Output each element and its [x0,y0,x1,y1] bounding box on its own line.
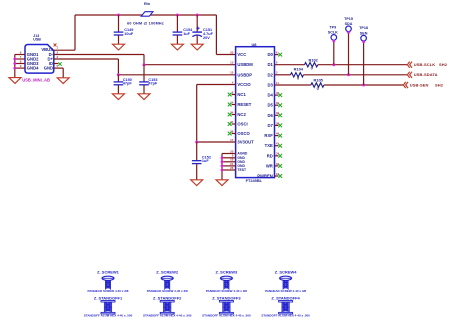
svg-text:USB_MINI_AB: USB_MINI_AB [22,77,50,82]
svg-text:TXE: TXE [265,143,273,148]
svg-text:SDA: SDA [345,22,353,26]
svg-text:0: 0 [297,76,299,81]
svg-text:D7: D7 [267,123,273,128]
svg-text:60 OHM @ 100MHz: 60 OHM @ 100MHz [127,22,164,26]
svg-text:3V3OUT: 3V3OUT [237,140,254,145]
svg-text:D3: D3 [267,83,273,88]
svg-text:PANHEAD SCREW 4-40 x 3/8: PANHEAD SCREW 4-40 x 3/8 [88,289,129,293]
svg-text:PANHEAD SCREW 4-40 x 3/8: PANHEAD SCREW 4-40 x 3/8 [265,289,306,293]
svg-text:TP9: TP9 [329,25,336,29]
svg-text:Z_STANDOFF3: Z_STANDOFF3 [212,296,241,301]
svg-text:20V: 20V [203,36,210,40]
svg-text:Z_STANDOFF2: Z_STANDOFF2 [153,296,182,301]
svg-text:SH2: SH2 [439,62,448,67]
svg-text:Z_SCREW3: Z_SCREW3 [216,269,239,274]
svg-text:FT245BL: FT245BL [246,178,263,183]
svg-text:R102: R102 [309,57,319,62]
svg-text:TEST: TEST [237,168,247,172]
svg-text:Z_SCREW4: Z_SCREW4 [275,269,298,274]
svg-text:NC1: NC1 [237,92,246,97]
svg-text:D0: D0 [267,52,273,57]
svg-text:Z_SCREW1: Z_SCREW1 [97,269,120,274]
svg-text:47pF: 47pF [123,81,133,85]
svg-text:GND: GND [44,66,53,71]
svg-text:11: 11 [276,81,279,85]
svg-text:STANDOFF ALUM HEX 4-40 x .500: STANDOFF ALUM HEX 4-40 x .500 [261,314,310,318]
svg-text:10uF: 10uF [124,32,134,36]
svg-text:OSCI: OSCI [237,122,247,127]
svg-text:Rin: Rin [144,2,151,6]
svg-text:D4: D4 [267,93,273,98]
svg-text:PWREN: PWREN [257,174,273,179]
svg-text:26: 26 [230,166,234,170]
svg-text:STANDOFF ALUM HEX 4-40 x .500: STANDOFF ALUM HEX 4-40 x .500 [202,314,251,318]
svg-text:17: 17 [230,138,234,142]
svg-text:USB-SCLK: USB-SCLK [414,62,435,67]
svg-text:D1: D1 [267,62,273,67]
svg-text:NC2: NC2 [237,112,246,117]
svg-text:STANDOFF ALUM HEX 4-40 x .500: STANDOFF ALUM HEX 4-40 x .500 [143,314,192,318]
svg-text:STANDOFF ALUM HEX 4-40 x .500: STANDOFF ALUM HEX 4-40 x .500 [84,314,133,318]
svg-text:PANHEAD SCREW 4-40 x 3/8: PANHEAD SCREW 4-40 x 3/8 [147,289,188,293]
svg-text:GND4: GND4 [27,66,39,71]
svg-text:D6: D6 [267,113,273,118]
svg-text:USBDM: USBDM [237,62,253,67]
svg-text:Z_STANDOFF4: Z_STANDOFF4 [271,296,300,301]
svg-text:USB-SDATA: USB-SDATA [414,72,438,77]
svg-text:VCCIO: VCCIO [237,82,251,87]
svg-text:SCLK: SCLK [328,31,338,35]
svg-text:D5: D5 [267,103,273,108]
svg-text:USBDP: USBDP [237,72,252,77]
svg-text:RESET: RESET [237,102,251,107]
svg-text:WR: WR [266,163,273,168]
svg-text:R105: R105 [314,78,324,83]
svg-text:Z_SCREW2: Z_SCREW2 [156,269,179,274]
svg-text:13: 13 [230,61,234,65]
svg-text:47pF: 47pF [148,81,158,85]
svg-text:0: 0 [311,65,313,70]
svg-text:TP18: TP18 [359,26,368,30]
svg-text:20: 20 [230,50,234,54]
svg-text:RXF: RXF [264,133,273,138]
svg-text:TP15: TP15 [344,17,353,21]
svg-text:SH2: SH2 [435,82,444,87]
svg-text:OSCO: OSCO [237,131,250,136]
svg-text:D2: D2 [267,72,273,77]
svg-text:Z_STANDOFF1: Z_STANDOFF1 [94,296,123,301]
svg-text:USB-SEN: USB-SEN [410,82,429,87]
svg-text:15: 15 [230,71,234,75]
svg-text:1uF: 1uF [202,159,209,163]
svg-text:VCC: VCC [237,52,246,57]
svg-text:0: 0 [317,86,319,91]
svg-text:SEN: SEN [360,31,368,35]
svg-text:1uF: 1uF [183,32,190,36]
svg-text:PANHEAD SCREW 4-40 x 3/8: PANHEAD SCREW 4-40 x 3/8 [206,289,247,293]
svg-text:R104: R104 [294,67,304,72]
svg-text:USB: USB [33,38,41,42]
svg-text:U8: U8 [252,42,258,47]
svg-text:RD: RD [267,153,273,158]
